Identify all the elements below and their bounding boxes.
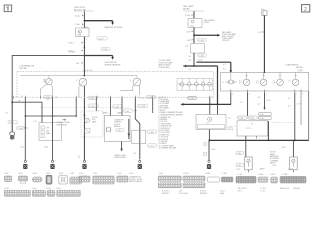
svg-text:E-05: E-05	[19, 173, 23, 175]
svg-text:C-10: C-10	[117, 173, 121, 175]
svg-text:F-05: F-05	[46, 173, 50, 175]
svg-text:8: 8	[223, 82, 224, 84]
svg-text:4-0: 4-0	[258, 104, 261, 106]
bulb right 2	[256, 72, 267, 85]
node: center trunk arrow split	[193, 34, 195, 36]
right trunk connector top	[261, 9, 267, 15]
label ground-up harness	[105, 62, 122, 66]
wire: thick feed down x=217.4	[217, 66, 219, 104]
rheostat box	[196, 115, 231, 130]
svg-text:0 4: 0 4	[223, 68, 226, 70]
svg-text:C-30: C-30	[237, 165, 241, 167]
page ref box 2	[302, 5, 310, 13]
svg-text:2 4: 2 4	[5, 112, 8, 114]
connector tick and label on x25	[17, 126, 28, 148]
svg-text:C-32: C-32	[70, 173, 74, 175]
svg-text:H C-10: H C-10	[139, 97, 144, 99]
legend row2 labels left	[5, 188, 61, 190]
svg-text:GLOVE: GLOVE	[92, 117, 98, 119]
legend connector C-110	[221, 177, 233, 182]
svg-text:C-30: C-30	[236, 169, 240, 171]
dashed faint link y107	[40, 107, 130, 109]
label 0.85-L lower with C-102	[68, 47, 110, 53]
svg-text:2-W: 2-W	[186, 40, 190, 42]
svg-text:C-212: C-212	[98, 38, 104, 40]
svg-text:C-12B: C-12B	[147, 97, 153, 99]
legend connector C-108	[207, 177, 219, 182]
bulb meter 1	[43, 76, 52, 85]
label 25-A upper	[75, 15, 84, 18]
wire: capsule lamp down to bus	[230, 92, 232, 104]
svg-text:8-0-4: 8-0-4	[211, 149, 215, 151]
connector label above x152	[146, 95, 156, 99]
svg-text:0 B: 0 B	[256, 82, 258, 84]
legend connector C-100 double	[183, 176, 205, 188]
relay box lower left	[8, 121, 62, 141]
svg-text:C-30: C-30	[159, 173, 163, 175]
svg-text:C-30: C-30	[117, 130, 121, 132]
svg-text:277 4: 277 4	[247, 128, 251, 130]
svg-text:C-138: C-138	[282, 174, 287, 176]
legend connector right C-138 wide	[280, 176, 306, 183]
svg-text:B7 4: B7 4	[238, 191, 242, 193]
svg-text:1 C-128: 1 C-128	[138, 106, 145, 108]
svg-text:IL: IL	[130, 80, 131, 82]
svg-text:1 C-10 A: 1 C-10 A	[68, 51, 75, 54]
wire: x76 stub	[75, 98, 77, 116]
svg-text:F-08: F-08	[59, 173, 63, 175]
svg-text:4-10 4: 4-10 4	[288, 168, 293, 170]
node: bottom bus junction	[208, 139, 210, 141]
svg-text:COMB NATION: COMB NATION	[285, 64, 299, 67]
svg-text:C-302: C-302	[239, 118, 244, 120]
svg-text:2: 2	[304, 7, 307, 13]
legend connector C-21 wide	[93, 176, 114, 184]
legend right labels	[238, 174, 287, 176]
svg-text:C-23: C-23	[129, 173, 133, 175]
svg-text:E-33: E-33	[5, 188, 9, 190]
legend mid labels	[79, 173, 133, 175]
wire: lighter in wire 2	[122, 98, 132, 116]
svg-text:C-108: C-108	[298, 70, 303, 72]
svg-text:WIRING HARNESS: WIRING HARNESS	[105, 63, 122, 66]
node: center trunk bottom split	[193, 65, 195, 67]
svg-text:C-104: C-104	[45, 97, 50, 99]
svg-text:C-110: C-110	[9, 122, 14, 124]
svg-text:C-30: C-30	[237, 153, 241, 155]
svg-text:2.5-A: 2.5-A	[75, 23, 80, 26]
bulb right 4	[288, 72, 299, 85]
connector label on x135 top	[134, 97, 148, 110]
svg-text:RELAY: RELAY	[183, 8, 190, 11]
label tail lamp text block	[222, 31, 237, 42]
tail lamp relay label	[183, 5, 204, 11]
stray small labels right area	[236, 167, 293, 171]
wire: center ground drop	[204, 140, 216, 160]
svg-text:1: 1	[79, 96, 80, 98]
svg-text:C-110: C-110	[222, 173, 227, 175]
node: bus junction	[84, 75, 86, 77]
legend connector F-13 wide	[57, 190, 81, 196]
svg-text:2.5-A: 2.5-A	[75, 15, 80, 18]
connector label C-212	[86, 37, 108, 41]
legend connector C-10 b	[117, 176, 128, 182]
svg-text:10 C-05: 10 C-05	[86, 70, 92, 72]
svg-text:PLATE LAMP: PLATE LAMP	[159, 66, 171, 69]
svg-text:C-105: C-105	[149, 132, 154, 134]
svg-text:NATION LAMPS): NATION LAMPS)	[129, 180, 142, 183]
meter pin labels	[15, 96, 213, 102]
wire: thick bottom bus	[209, 139, 308, 141]
svg-text:C-122: C-122	[270, 174, 275, 176]
ground symbol x135	[138, 160, 142, 169]
svg-text:4: 4	[27, 128, 28, 130]
label C-102 pair below box	[188, 54, 206, 62]
legend center labels	[159, 173, 227, 175]
label to tail lamp left	[159, 59, 174, 69]
connector labels left of licence lamp	[236, 151, 244, 167]
legend connector F-05	[46, 175, 52, 184]
svg-text:4 4B4: 4 4B4	[220, 193, 224, 195]
wire: bus to left licence lamp	[245, 136, 247, 157]
wire: right trunk down	[263, 15, 265, 72]
svg-text:7: 7	[296, 94, 297, 96]
node: junction at x12 y102	[11, 101, 13, 103]
bulb capsule right box	[223, 80, 237, 84]
legend connector C-10 a	[79, 176, 90, 182]
label right of relay box	[204, 19, 215, 24]
legend connector E-30	[32, 177, 42, 182]
svg-text:METER: METER	[296, 67, 303, 69]
meter pin ticks bottom	[14, 96, 210, 99]
svg-text:D4: D4	[55, 97, 57, 99]
wire: lighter in wire 1	[111, 98, 123, 116]
label 2-4 right trunk	[258, 31, 264, 34]
svg-text:F-13: F-13	[57, 188, 61, 190]
rear box F	[234, 121, 267, 136]
legend connector E-34	[47, 190, 55, 196]
wire: cross link y116	[25, 115, 77, 117]
svg-text:C-102: C-102	[189, 98, 194, 100]
svg-text:METER: METER	[20, 68, 28, 70]
svg-text:7 7-4 4: 7 7-4 4	[260, 191, 265, 193]
svg-text:0.85-L: 0.85-L	[68, 43, 75, 45]
labels lamp+/-	[103, 112, 123, 115]
bulb right 3	[273, 72, 284, 85]
dashed link right	[272, 121, 294, 123]
svg-text:LAMP RELAY: LAMP RELAY	[57, 123, 68, 126]
label 25-A center	[185, 14, 193, 17]
wire: lighter output arrow below	[115, 142, 127, 160]
connector labels on meter bottom	[44, 95, 197, 100]
wire: thick arrow pointing left	[183, 65, 217, 68]
legend connector right C-122	[271, 177, 278, 183]
wire: capsule feed from arrow	[230, 73, 232, 80]
legend connector F-08	[59, 175, 68, 184]
svg-text:C-102: C-102	[199, 40, 205, 42]
ground symbol x25	[23, 160, 27, 169]
svg-text:7: 7	[204, 144, 205, 146]
svg-text:5: 5	[302, 94, 303, 96]
wire: thick bus y104.4	[181, 103, 232, 106]
svg-text:2-W: 2-W	[186, 31, 190, 33]
wire: center trunk below relay	[193, 28, 195, 44]
page ref box 1	[4, 5, 11, 12]
wire: bulb1 left leg	[40, 84, 47, 98]
wire: x52 down to ground	[52, 98, 54, 160]
label 0-4 near feed	[223, 64, 226, 71]
svg-text:7: 7	[137, 96, 138, 98]
svg-text:/C-32: /C-32	[266, 100, 270, 102]
fuse box left	[76, 28, 89, 37]
svg-text:7: 7	[266, 94, 267, 96]
svg-text:MR-R4 4 44: MR-R4 4 44	[280, 188, 289, 190]
ground symbol x52	[50, 160, 54, 169]
label licence plate relay with arrow	[57, 119, 71, 126]
svg-text:C-35: C-35	[260, 114, 264, 116]
wire: x264 down with arrow	[258, 92, 271, 110]
wire: x152 stub	[152, 98, 154, 113]
label 0.85-L upper	[68, 42, 83, 45]
wire: bulb3 down legs	[120, 85, 139, 95]
wire: x96 into dashed box	[95, 98, 97, 111]
svg-text:C-102: C-102	[199, 56, 204, 58]
svg-text:METER 4: METER 4	[162, 193, 169, 195]
wire: rheostat output down	[208, 130, 210, 141]
node: x268 bus junction	[268, 140, 270, 142]
wire: x12 continues down	[11, 102, 13, 132]
wire: feed into rheostat	[217, 104, 219, 114]
svg-text:C-108: C-108	[205, 173, 210, 175]
svg-text:1 4: 1 4	[240, 102, 242, 104]
svg-text:3 W: 3 W	[76, 63, 80, 65]
connector labels stacked under x264 arrow	[259, 112, 272, 120]
svg-text:2 4: 2 4	[21, 96, 23, 98]
svg-text:7-0 4F 4 4H: 7-0 4F 4 4H	[179, 193, 189, 195]
svg-text:0-7: 0-7	[288, 98, 291, 100]
svg-text:E-30: E-30	[33, 173, 37, 175]
svg-text:22- DIMMER SW LAMP: 22- DIMMER SW LAMP	[158, 147, 177, 150]
svg-text:1 4: 1 4	[251, 124, 253, 126]
wire: ground-up arrow right	[84, 56, 114, 60]
combination lamp box right	[221, 72, 309, 91]
bulb right 1	[239, 72, 250, 85]
svg-text:C-34: C-34	[125, 111, 129, 113]
wire: from dashed box pin D down	[209, 98, 211, 115]
connector labels right of trunk	[84, 96, 99, 116]
legend connector right C-10	[236, 176, 256, 183]
svg-text:IL: IL	[76, 80, 77, 82]
connector labels C-302 C-303	[238, 116, 258, 120]
svg-text:0 4: 0 4	[223, 64, 226, 66]
indicator lamp group box	[177, 79, 212, 91]
wire: left trunk upper segment	[83, 11, 85, 28]
svg-text:ME: ME	[43, 80, 45, 82]
indicator bulbs row	[180, 79, 211, 91]
junction box center	[185, 44, 205, 54]
svg-text:F-10: F-10	[33, 188, 37, 190]
licence plate lamp right	[290, 157, 298, 172]
legend connector E-05	[18, 176, 27, 184]
ground symbol x209	[207, 160, 211, 169]
svg-text:2-W: 2-W	[185, 45, 189, 47]
node: trunk split at meter feed	[84, 55, 86, 57]
legend note rows center	[162, 190, 224, 194]
svg-text:0 4: 0 4	[188, 69, 191, 71]
svg-text:C-121: C-121	[149, 146, 154, 148]
svg-text:OFF: OFF	[46, 128, 49, 130]
wire: thick feed going left and down to x=12	[12, 56, 84, 103]
right box pin labels	[232, 94, 303, 96]
wire: thick arrow right to tail lamp	[194, 34, 220, 37]
label combination meter left	[20, 64, 35, 69]
svg-text:C-21: C-21	[93, 173, 97, 175]
svg-text:4 B: 4 B	[239, 82, 241, 84]
svg-text:C-102: C-102	[197, 60, 202, 62]
legend connector C-32	[70, 177, 82, 184]
label 2-W upper center	[186, 31, 193, 34]
room lamp text block	[270, 152, 280, 167]
small box on x140	[132, 130, 157, 155]
wire: center trunk below junction box	[193, 53, 195, 66]
dashed glovebox lamp box	[81, 111, 103, 137]
junction block label	[74, 7, 94, 11]
legend note text C-23	[129, 176, 142, 183]
svg-text:4-0: 4-0	[258, 97, 261, 99]
svg-text:C-10: C-10	[79, 173, 83, 175]
legend connector F-10	[32, 190, 45, 196]
wire: x25 down to ground	[24, 98, 26, 160]
bulb meter 3	[130, 76, 141, 86]
ground symbol x84	[78, 154, 86, 169]
wire code list column	[158, 97, 183, 150]
svg-text:1: 1	[232, 94, 233, 96]
svg-text:NATION: NATION	[114, 125, 121, 128]
svg-text:C-102: C-102	[102, 49, 108, 51]
cigarette lighter illumination box	[105, 116, 130, 142]
legend note rows right	[238, 188, 289, 192]
legend connector E-02	[4, 176, 11, 182]
wire: x247 down from right box	[247, 92, 249, 116]
wire: left trunk mid segment	[83, 37, 85, 56]
wire: left trunk to ground	[83, 98, 85, 160]
wire: lighter internal down arrow	[128, 119, 131, 139]
svg-text:AX14-04: AX14-04	[294, 187, 301, 190]
svg-text:6: 6	[154, 96, 155, 98]
wire: thick branch to parking system	[84, 20, 114, 25]
svg-text:C7-7: C7-7	[297, 104, 301, 106]
svg-text:4: 4	[249, 94, 250, 96]
svg-text:4 B: 4 B	[273, 82, 275, 84]
legend connector E-33 wide	[4, 190, 30, 196]
legend connector right C-100	[258, 177, 268, 182]
svg-text:C-103: C-103	[114, 107, 119, 109]
wire: right edge drop	[308, 91, 310, 140]
wire: x268 down to bus	[267, 121, 269, 140]
svg-text:C-10: C-10	[238, 174, 242, 176]
svg-text:24: 24	[207, 123, 209, 125]
svg-text:0-4: 0-4	[288, 106, 291, 108]
svg-text:C-100: C-100	[183, 173, 188, 175]
svg-text:C-104: C-104	[18, 128, 23, 130]
svg-text:4-10: 4-10	[273, 165, 276, 167]
svg-text:(211-4): (211-4)	[228, 129, 234, 131]
right box pin ticks	[231, 90, 301, 93]
combination meter dashed box	[17, 72, 214, 98]
legend connector C-30 double	[158, 176, 181, 188]
svg-text:(10): (10)	[190, 26, 194, 28]
relay box center	[188, 19, 202, 28]
wire: bulb1 down	[51, 84, 53, 97]
pin label C-05 at meter entry	[83, 70, 92, 72]
label combination lamp right	[285, 64, 303, 72]
wire: bulb2 down legs	[79, 85, 85, 97]
svg-text:C-36: C-36	[260, 118, 264, 120]
svg-text:E-34: E-34	[47, 188, 51, 190]
svg-text:8: 8	[98, 96, 99, 98]
legend row1 labels left	[5, 173, 75, 175]
svg-text:310-7: 310-7	[282, 147, 286, 149]
svg-text:1-4: 1-4	[228, 117, 231, 119]
svg-text:C-303: C-303	[249, 118, 254, 120]
svg-text:C-100: C-100	[258, 174, 263, 176]
label 2-W lower with C-102	[186, 38, 206, 42]
svg-text:NATION LAMP: NATION LAMP	[115, 156, 127, 159]
node: right trunk joins box top	[264, 72, 266, 74]
wire: thick branch upper right to arrow down	[197, 62, 233, 73]
svg-text:C-105: C-105	[89, 98, 94, 100]
wire: center trunk upper	[193, 11, 195, 18]
svg-text:1: 1	[234, 126, 235, 128]
svg-text:2-7 4: 2-7 4	[33, 121, 37, 123]
svg-text:0-4: 0-4	[188, 60, 191, 62]
bulb meter 2	[76, 78, 87, 86]
wire: illumination bus	[20, 75, 137, 77]
svg-text:METER 4: METER 4	[200, 193, 207, 195]
wire: trunk into meter	[83, 56, 85, 76]
svg-text:PARKING SYSTEM: PARKING SYSTEM	[105, 26, 123, 29]
rheostat side labels	[228, 126, 234, 130]
svg-text:(C-10): (C-10)	[89, 106, 95, 108]
wire: branch right at y102 then down x42	[12, 102, 42, 122]
wire: x135 jog to x140 down to ground	[135, 98, 140, 160]
svg-text:2.5-A: 2.5-A	[185, 14, 190, 17]
label 3-W on trunk	[76, 62, 84, 65]
label 2-R near x12	[5, 101, 21, 115]
svg-text:7: 7	[204, 154, 205, 156]
label 25-A lower	[75, 23, 84, 26]
wire: x301 light down	[300, 92, 302, 125]
svg-text:E-02: E-02	[5, 173, 9, 175]
svg-text:0-4: 0-4	[188, 56, 191, 58]
pin ticks under box F	[246, 136, 257, 139]
licence plate lamp left	[245, 157, 253, 172]
svg-text:FUSE: FUSE	[204, 22, 210, 24]
wire: bus to right licence lamp	[292, 140, 294, 157]
noise capacitor component x12	[10, 132, 15, 139]
wire: x294 down through bus	[288, 92, 301, 141]
svg-text:3 4: 3 4	[47, 100, 49, 102]
svg-text:CIRCUIT: CIRCUIT	[222, 40, 230, 42]
